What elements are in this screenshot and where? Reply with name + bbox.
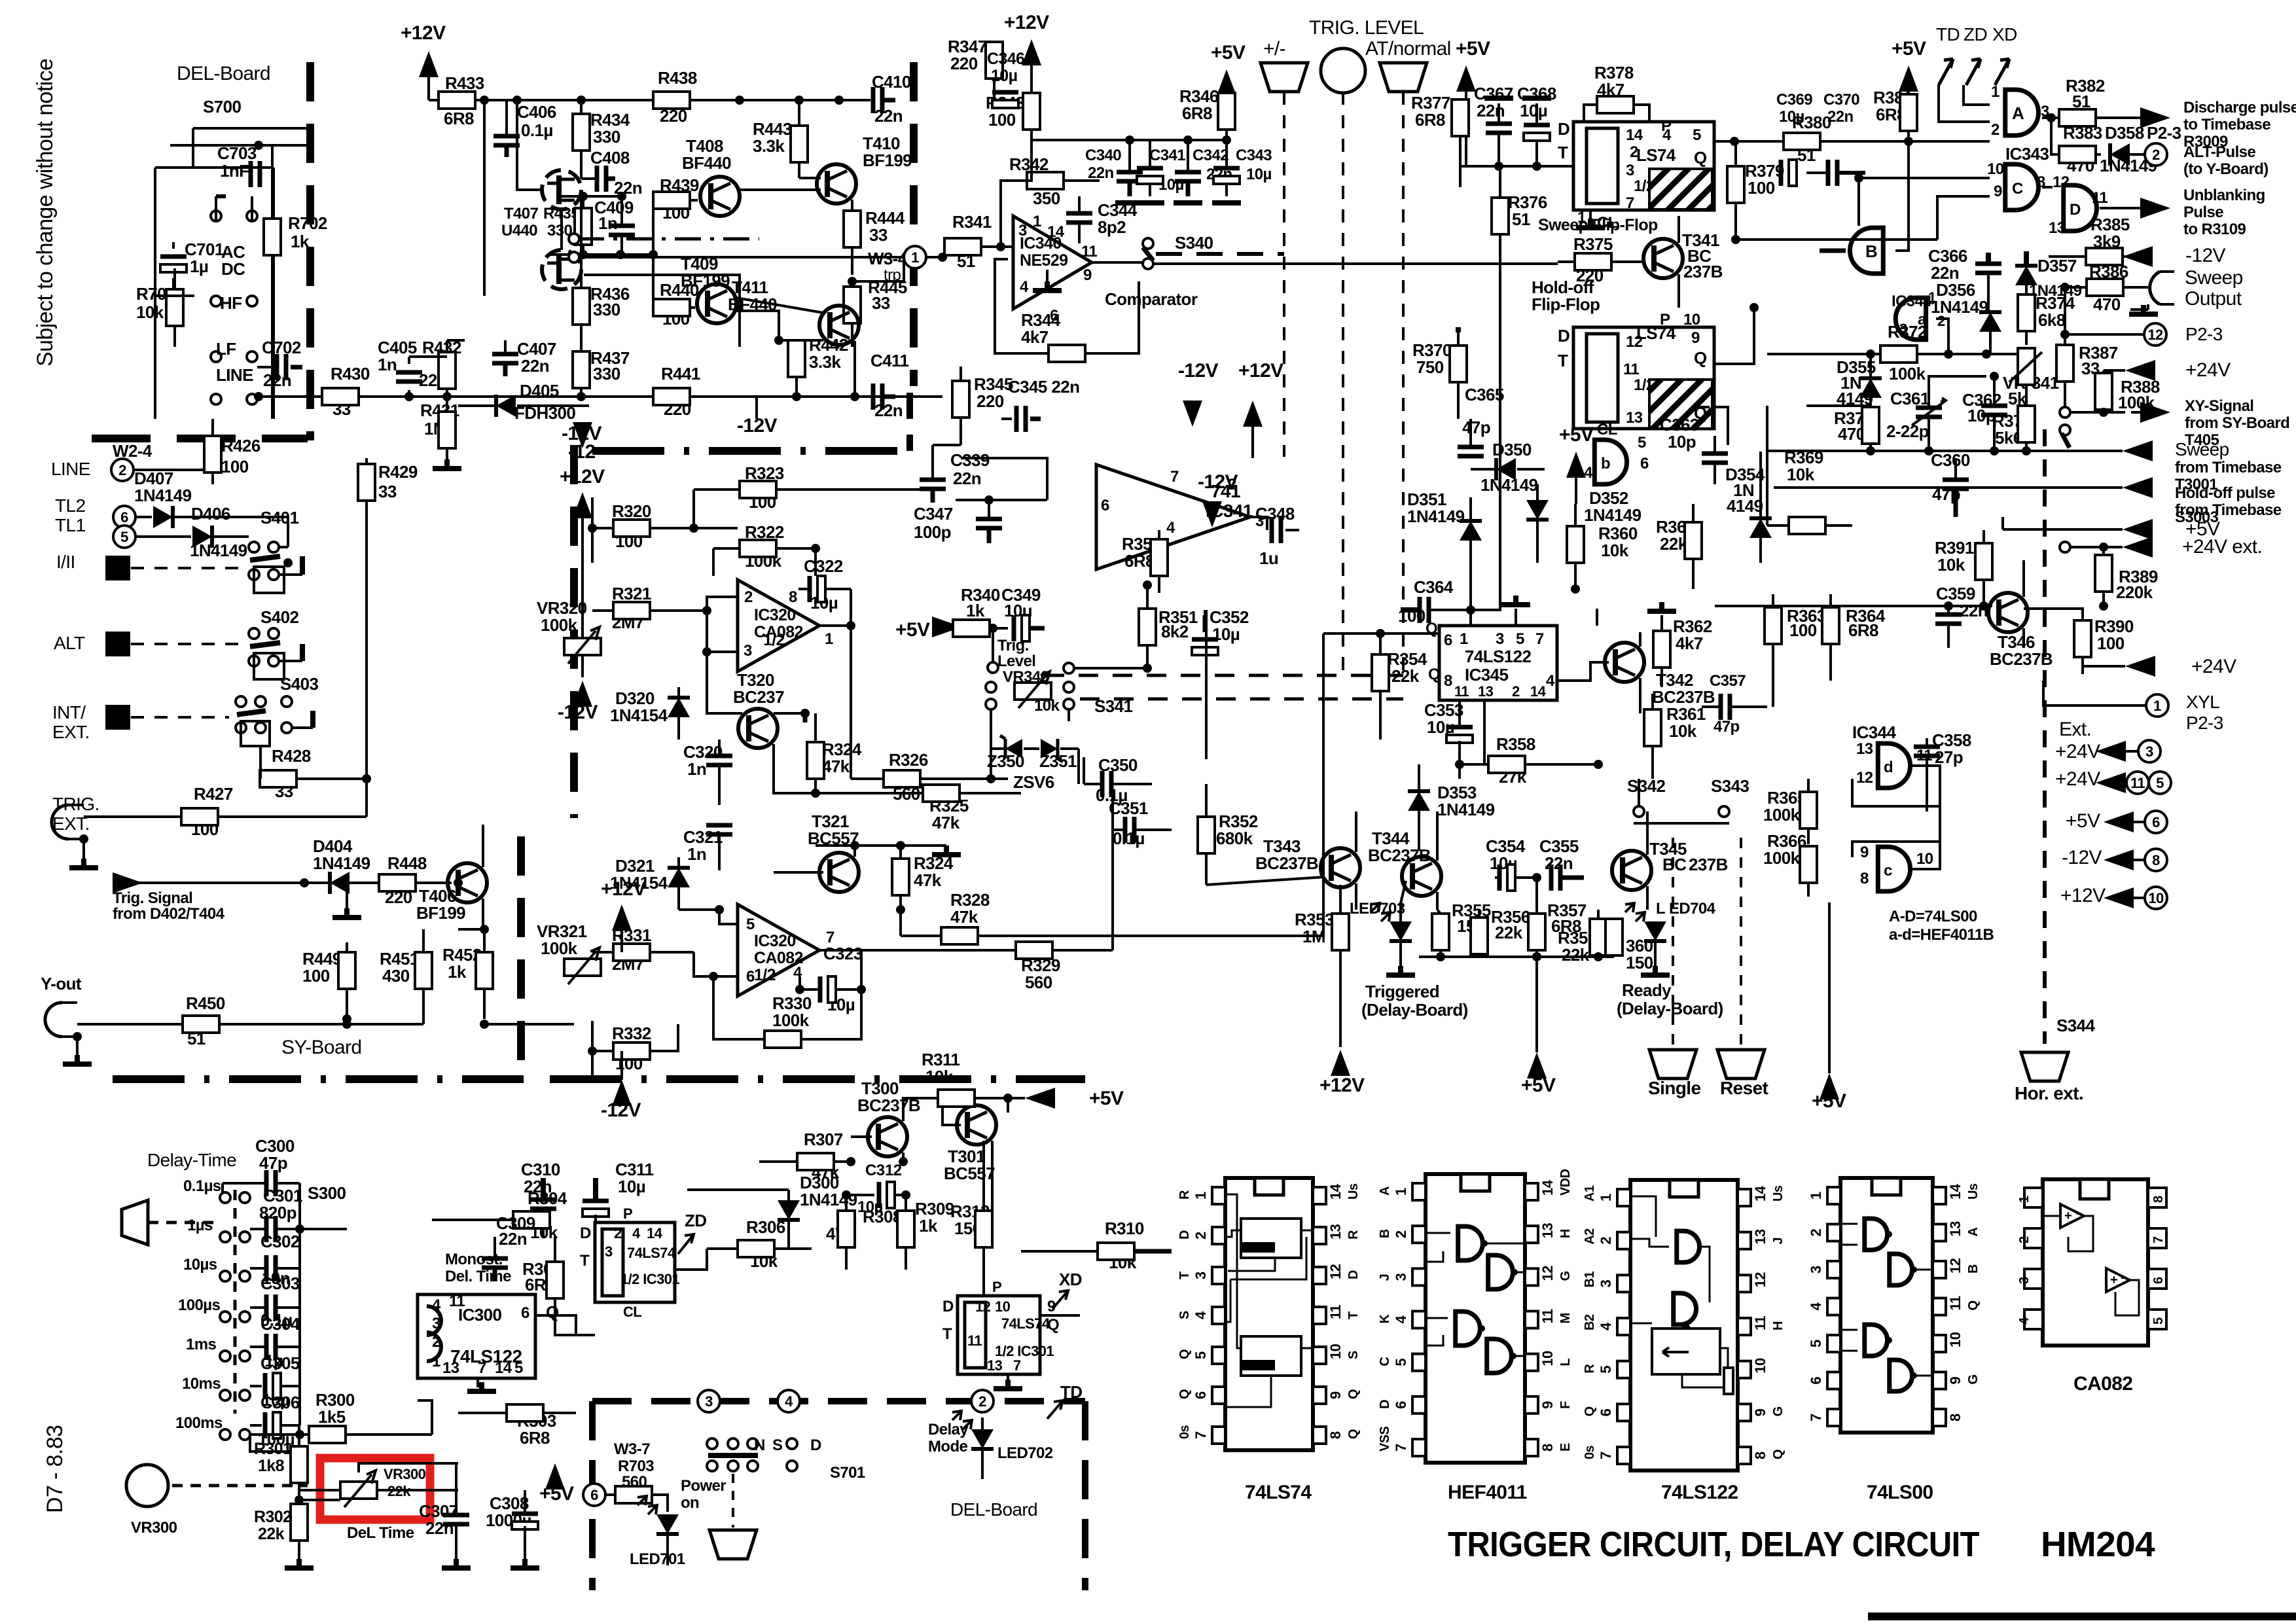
svg-text:Us: Us <box>1966 1183 1981 1200</box>
svg-text:-12V: -12V <box>2062 847 2102 868</box>
svg-text:8: 8 <box>1444 672 1452 690</box>
svg-text:BC557: BC557 <box>944 1164 995 1183</box>
svg-text:L: L <box>1558 1359 1573 1366</box>
svg-text:47p: 47p <box>1462 418 1490 437</box>
wire comparator output <box>1092 261 1143 264</box>
svg-text:C370: C370 <box>1823 91 1859 109</box>
svg-text:S: S <box>1177 1311 1192 1319</box>
svg-text:D406: D406 <box>191 504 230 524</box>
svg-text:Q: Q <box>1177 1349 1192 1359</box>
svg-text:10: 10 <box>1683 311 1700 329</box>
wire VR300 wiper <box>299 1499 340 1501</box>
svg-text:N: N <box>754 1436 765 1454</box>
svg-text:3: 3 <box>744 642 752 660</box>
pushbutton S701 <box>707 1438 717 1449</box>
svg-text:1: 1 <box>1808 1192 1824 1200</box>
svg-text:+5V: +5V <box>1892 38 1926 60</box>
svg-text:4: 4 <box>1598 1322 1614 1330</box>
svg-text:1k: 1k <box>919 1216 938 1236</box>
svg-text:AT/normal: AT/normal <box>1365 38 1451 60</box>
svg-text:5: 5 <box>1693 126 1701 144</box>
svg-text:+12V: +12V <box>1004 12 1049 33</box>
sweep output connector <box>2150 272 2160 304</box>
svg-text:6R8: 6R8 <box>1182 103 1212 123</box>
svg-text:+5V: +5V <box>1559 424 1594 446</box>
svg-text:74LS74: 74LS74 <box>1001 1315 1050 1332</box>
switch S700 frame <box>192 128 194 168</box>
dashed stem S701 <box>732 1474 734 1527</box>
svg-text:C351: C351 <box>1109 798 1148 818</box>
svg-text:+5V: +5V <box>539 1483 574 1505</box>
svg-text:5: 5 <box>1516 630 1524 648</box>
svg-text:R438: R438 <box>658 68 697 88</box>
svg-text:11: 11 <box>1081 243 1097 260</box>
svg-text:XY-Signal: XY-Signal <box>2185 397 2253 415</box>
svg-text:VR300: VR300 <box>131 1519 177 1537</box>
svg-text:1µs: 1µs <box>187 1217 213 1234</box>
svg-text:13: 13 <box>1752 1229 1768 1245</box>
svg-text:C345 22n: C345 22n <box>1008 377 1079 397</box>
svg-text:100: 100 <box>988 110 1016 130</box>
svg-text:2: 2 <box>1808 1229 1824 1237</box>
svg-text:Unblanking: Unblanking <box>2183 187 2265 204</box>
long rail y926 <box>1715 605 1898 607</box>
svg-text:1/2 IC301: 1/2 IC301 <box>995 1343 1054 1359</box>
thick dashed DEL border vertical right <box>1082 1401 1088 1590</box>
ground IC301b <box>1007 1374 1009 1385</box>
board border middle vertical <box>910 62 918 386</box>
svg-text:Delay-Time: Delay-Time <box>147 1150 236 1170</box>
svg-text:XYL: XYL <box>2186 692 2219 712</box>
svg-text:R448: R448 <box>387 853 427 873</box>
svg-text:100: 100 <box>2097 633 2125 653</box>
dual-gate fet T407 lower <box>542 250 581 289</box>
dashed control line <box>131 567 247 569</box>
svg-text:3: 3 <box>1598 1279 1614 1287</box>
svg-text:8: 8 <box>1752 1452 1768 1459</box>
svg-text:5: 5 <box>120 529 128 545</box>
svg-text:C306: C306 <box>260 1393 300 1412</box>
svg-text:from SY-Board: from SY-Board <box>2185 414 2289 432</box>
+5V arrow S343 area <box>1820 1073 1839 1099</box>
svg-text:13: 13 <box>1626 409 1643 427</box>
svg-text:Q: Q <box>1966 1301 1981 1311</box>
hor ext trapezoid <box>2021 1052 2068 1081</box>
74LS122 internal logic <box>1677 1231 1700 1262</box>
svg-text:W3-7: W3-7 <box>614 1440 650 1458</box>
svg-text:D358: D358 <box>2105 123 2144 143</box>
svg-text:3: 3 <box>1018 222 1027 240</box>
ic301 74LS74 second half <box>958 1296 1040 1374</box>
svg-text:100ms: 100ms <box>175 1414 223 1432</box>
dashed link TRIG LEVEL control <box>1342 92 1344 675</box>
svg-text:P2-3: P2-3 <box>2185 324 2223 344</box>
wire Q to XD <box>1040 1314 1080 1317</box>
svg-text:D: D <box>942 1298 954 1315</box>
svg-text:10: 10 <box>2148 890 2164 906</box>
svg-text:100: 100 <box>1748 178 1775 198</box>
svg-text:C411: C411 <box>870 351 908 370</box>
svg-text:S340: S340 <box>1175 233 1213 253</box>
svg-text:14: 14 <box>1047 223 1065 241</box>
svg-text:R: R <box>1346 1230 1361 1240</box>
transistor T300 BC237B <box>868 1117 907 1156</box>
svg-text:LS74: LS74 <box>1636 323 1676 343</box>
ground IC300 <box>476 1378 479 1387</box>
svg-text:10ms: 10ms <box>182 1375 221 1393</box>
svg-text:DC: DC <box>221 259 245 279</box>
svg-text:D: D <box>1378 1400 1392 1409</box>
svg-text:1nF: 1nF <box>220 161 249 181</box>
transistor T343 BC237B <box>1321 848 1360 887</box>
svg-text:10: 10 <box>1539 1351 1556 1366</box>
long vertical +5V trig <box>1471 445 1500 610</box>
svg-text:10k: 10k <box>1787 465 1815 484</box>
svg-text:12: 12 <box>1947 1258 1964 1274</box>
svg-text:12: 12 <box>885 1162 902 1179</box>
svg-text:10µ: 10µ <box>991 67 1017 85</box>
pot VR340 10k <box>1014 683 1051 700</box>
svg-text:C357: C357 <box>1710 672 1746 690</box>
svg-text:10: 10 <box>1916 850 1933 868</box>
svg-text:10µ: 10µ <box>618 1177 645 1196</box>
svg-text:9: 9 <box>1947 1377 1964 1385</box>
svg-text:S: S <box>1346 1351 1361 1359</box>
dashed S341 row2 <box>1080 698 1403 701</box>
transistor T345 BC237B <box>1612 851 1651 890</box>
svg-text:22n: 22n <box>874 401 903 420</box>
svg-text:S344: S344 <box>2056 1016 2095 1035</box>
svg-text:74LS74: 74LS74 <box>1245 1482 1312 1503</box>
dashed S340 to +/- line <box>1156 252 1284 256</box>
svg-text:C340: C340 <box>1085 147 1121 164</box>
svg-text:9: 9 <box>1752 1408 1768 1416</box>
wire from T410 emitter down <box>853 341 856 397</box>
svg-text:SY-Board: SY-Board <box>281 1037 362 1058</box>
junction dots <box>1731 235 1740 244</box>
svg-text:+: + <box>2110 1273 2117 1287</box>
svg-text:2: 2 <box>2152 147 2160 163</box>
wire 741 inputs <box>961 458 1047 500</box>
connector 3 on border <box>698 1390 720 1412</box>
svg-text:-12V: -12V <box>1178 360 1219 382</box>
svg-text:0.1µ: 0.1µ <box>521 120 553 140</box>
svg-text:from Timebase: from Timebase <box>2175 459 2282 476</box>
svg-text:ZD: ZD <box>1964 24 1987 45</box>
svg-text:(Delay-Board): (Delay-Board) <box>1361 1000 1468 1020</box>
svg-text:S403: S403 <box>280 674 318 694</box>
power -12V arrow bottom mid <box>612 1080 632 1106</box>
svg-text:L: L <box>1656 900 1665 918</box>
svg-text:S401: S401 <box>260 508 298 527</box>
horizontal R328 to right <box>1100 935 1323 937</box>
svg-text:3: 3 <box>2145 743 2153 760</box>
svg-text:Hold-off pulse: Hold-off pulse <box>2175 484 2275 502</box>
svg-text:1/2: 1/2 <box>754 966 776 984</box>
svg-text:+/-: +/- <box>1263 38 1285 60</box>
svg-text:Comparator: Comparator <box>1105 289 1198 309</box>
svg-text:100k: 100k <box>1763 805 1801 825</box>
wire S340 dash-dot line <box>578 238 759 241</box>
svg-text:Ext.: Ext. <box>2059 719 2091 740</box>
svg-text:T: T <box>1558 351 1568 370</box>
+5V arrow right of R311 <box>1025 1088 1055 1109</box>
svg-text:22n: 22n <box>425 1518 454 1538</box>
svg-text:C410: C410 <box>872 72 911 92</box>
svg-text:DEL-Board: DEL-Board <box>177 63 270 84</box>
svg-text:+12V: +12V <box>1319 1075 1365 1096</box>
svg-text:E: E <box>1558 1443 1573 1452</box>
connector trig ext jack <box>52 805 69 839</box>
svg-text:1n: 1n <box>687 759 706 779</box>
svg-text:2: 2 <box>1512 683 1520 700</box>
svg-text:G: G <box>1558 1271 1573 1281</box>
svg-text:100k: 100k <box>541 938 578 958</box>
svg-text:2-22p: 2-22p <box>1886 421 1929 441</box>
thick dash-dot board border SY <box>113 1075 524 1083</box>
svg-text:F: F <box>1558 1401 1573 1409</box>
svg-text:R426: R426 <box>221 436 260 455</box>
svg-text:Flip-Flop: Flip-Flop <box>1532 294 1600 314</box>
svg-text:Sweep: Sweep <box>2185 267 2243 289</box>
svg-text:10: 10 <box>1947 1332 1964 1347</box>
svg-text:33: 33 <box>378 482 397 501</box>
svg-text:Q: Q <box>1583 1406 1597 1416</box>
svg-text:D: D <box>1558 326 1570 346</box>
svg-text:11: 11 <box>1539 1309 1556 1323</box>
svg-text:6R8: 6R8 <box>1848 620 1878 640</box>
svg-text:6: 6 <box>1393 1401 1409 1409</box>
svg-text:74LS74: 74LS74 <box>627 1245 676 1261</box>
dashed vertical single <box>1672 838 1674 1050</box>
svg-text:10: 10 <box>1752 1358 1768 1374</box>
svg-text:S342: S342 <box>1627 776 1665 796</box>
svg-text:1/2 IC301: 1/2 IC301 <box>620 1271 679 1287</box>
svg-text:C304: C304 <box>260 1314 300 1334</box>
label P2-3 12 <box>2144 323 2166 346</box>
svg-text:TD: TD <box>1936 24 1960 45</box>
svg-text:350: 350 <box>1033 188 1060 208</box>
svg-text:1k: 1k <box>966 601 985 620</box>
svg-text:100k: 100k <box>1763 848 1801 868</box>
svg-text:330: 330 <box>593 300 620 319</box>
trig signal input arrow <box>113 872 143 893</box>
svg-text:R308: R308 <box>863 1207 902 1226</box>
svg-text:R430: R430 <box>331 364 370 383</box>
svg-text:M: M <box>1558 1313 1573 1323</box>
svg-text:6: 6 <box>521 1304 529 1322</box>
transistor T301 BC557 <box>957 1105 996 1145</box>
power arrow -12V lower <box>573 681 592 707</box>
label +5V delay <box>545 1463 565 1489</box>
svg-text:11: 11 <box>1623 361 1639 378</box>
svg-text:BF440: BF440 <box>682 153 731 173</box>
svg-text:BC: BC <box>1662 855 1687 874</box>
wire +12V rail comparator <box>1031 139 1227 141</box>
dual-gate fet T407 U440 upper <box>542 170 581 209</box>
node I/II black square <box>105 556 130 580</box>
wire R369 run <box>1766 406 1768 526</box>
svg-text:22n: 22n <box>953 469 981 488</box>
svg-text:0.1µs: 0.1µs <box>183 1177 221 1195</box>
svg-text:13: 13 <box>1327 1224 1344 1240</box>
svg-text:10k: 10k <box>1034 697 1060 715</box>
svg-text:13: 13 <box>1539 1223 1556 1239</box>
svg-text:G: G <box>1966 1375 1981 1385</box>
svg-text:2: 2 <box>1193 1232 1209 1240</box>
svg-text:BC237: BC237 <box>733 687 784 707</box>
svg-text:11: 11 <box>1947 1296 1964 1310</box>
nand gate A IC343 <box>2005 90 2039 135</box>
74LS74 internal flip-flop 2 <box>1241 1336 1301 1376</box>
svg-text:Discharge pulse: Discharge pulse <box>2183 99 2296 116</box>
svg-text:9: 9 <box>1691 329 1700 347</box>
svg-text:8k2: 8k2 <box>1161 622 1189 641</box>
thick dashed board border vertical DEL <box>306 62 314 440</box>
svg-text:1/2: 1/2 <box>763 631 785 649</box>
svg-text:Output: Output <box>2185 288 2242 310</box>
ic301 74LS74 first half <box>595 1222 675 1302</box>
svg-text:R703: R703 <box>618 1457 654 1475</box>
svg-text:22k: 22k <box>258 1525 285 1543</box>
svg-text:R433: R433 <box>445 73 484 93</box>
svg-text:R326: R326 <box>889 750 928 770</box>
svg-text:22n: 22n <box>1477 101 1505 120</box>
svg-text:-12V: -12V <box>562 423 602 444</box>
board border horizontal mid <box>592 447 910 455</box>
svg-text:1: 1 <box>1991 83 2000 101</box>
svg-text:B: B <box>1966 1264 1981 1274</box>
svg-text:7: 7 <box>1598 1452 1614 1459</box>
svg-text:10: 10 <box>1327 1344 1344 1359</box>
svg-text:10: 10 <box>995 1298 1011 1315</box>
svg-text:b: b <box>1601 455 1610 473</box>
board border elbow <box>906 393 913 451</box>
nand gate a IC344 <box>1895 298 1926 340</box>
svg-text:C339: C339 <box>950 450 990 470</box>
svg-text:D: D <box>580 1224 591 1242</box>
svg-text:2: 2 <box>1991 121 2000 139</box>
svg-text:2: 2 <box>1393 1230 1409 1238</box>
svg-text:C343: C343 <box>1236 147 1272 164</box>
svg-text:1n: 1n <box>598 213 617 233</box>
svg-text:Q: Q <box>1346 1389 1361 1399</box>
svg-text:6: 6 <box>746 968 755 986</box>
svg-text:D357: D357 <box>2037 256 2077 276</box>
svg-text:Sweep: Sweep <box>2175 439 2229 459</box>
wire bottom rail T-row <box>1419 955 1614 958</box>
svg-text:100k: 100k <box>1889 364 1926 383</box>
svg-text:D: D <box>1177 1230 1192 1240</box>
vertical long x2022 <box>1113 633 1323 936</box>
svg-text:5: 5 <box>746 916 755 933</box>
IC package 74LS00 body <box>1840 1178 1933 1433</box>
svg-text:4: 4 <box>1393 1315 1409 1324</box>
svg-text:Level: Level <box>997 652 1035 670</box>
led LED702 <box>971 1429 994 1449</box>
cross-coupled wires <box>1852 766 1940 857</box>
svg-text:P2-3: P2-3 <box>2186 713 2223 733</box>
nand gate c IC344 <box>1878 847 1910 891</box>
svg-text:R332: R332 <box>612 1024 651 1043</box>
vertical border piece upper <box>570 445 578 818</box>
unblanking arrow <box>2127 207 2144 209</box>
svg-text:T: T <box>1346 1311 1361 1319</box>
svg-text:6: 6 <box>1808 1377 1824 1385</box>
svg-text:4: 4 <box>1020 278 1029 296</box>
svg-text:5: 5 <box>1193 1351 1209 1359</box>
svg-text:DeL Time: DeL Time <box>347 1524 414 1542</box>
svg-text:10µs: 10µs <box>183 1256 217 1274</box>
opamp IC340 NE529 comparator <box>1013 216 1092 309</box>
svg-text:C302: C302 <box>260 1232 300 1251</box>
nand gate C IC343 <box>2005 164 2039 210</box>
svg-text:ED704: ED704 <box>1669 900 1716 918</box>
discharge pulse arrow <box>2127 116 2144 119</box>
svg-text:3.3k: 3.3k <box>753 136 785 156</box>
+5V input arrow <box>2003 528 2123 531</box>
svg-text:8: 8 <box>1539 1444 1556 1452</box>
svg-text:12: 12 <box>1856 769 1873 787</box>
svg-text:6R8: 6R8 <box>1415 110 1445 130</box>
svg-text:47k: 47k <box>914 870 942 890</box>
svg-text:A: A <box>1966 1228 1981 1237</box>
svg-text:13: 13 <box>1856 740 1873 758</box>
svg-text:3: 3 <box>1626 162 1634 179</box>
cap column right rail <box>298 1183 301 1425</box>
svg-text:1: 1 <box>2017 1196 2032 1203</box>
svg-text:+12V: +12V <box>2060 885 2106 906</box>
opamp IC320 CA082 lower half <box>738 904 819 996</box>
svg-text:6k8: 6k8 <box>2038 310 2066 330</box>
svg-text:C347: C347 <box>914 504 953 524</box>
svg-text:1: 1 <box>2153 698 2161 714</box>
wire <box>170 144 308 147</box>
svg-text:12: 12 <box>975 1298 991 1315</box>
svg-text:+5V: +5V <box>1089 1088 1124 1109</box>
svg-text:BF199: BF199 <box>416 903 465 923</box>
svg-text:C3: C3 <box>865 1162 885 1179</box>
svg-text:5: 5 <box>1808 1340 1824 1347</box>
svg-text:2: 2 <box>2017 1236 2032 1243</box>
nand gate b IC344 <box>1594 440 1626 484</box>
svg-text:+24V: +24V <box>2055 768 2100 790</box>
svg-text:1k5: 1k5 <box>318 1407 346 1427</box>
svg-text:VR300: VR300 <box>384 1466 426 1482</box>
power +12V arrow <box>419 51 439 77</box>
74LS74 internal wiring <box>1225 1194 1241 1348</box>
svg-text:33: 33 <box>872 293 890 313</box>
svg-text:TRIG. LEVEL: TRIG. LEVEL <box>1309 17 1424 39</box>
svg-text:3: 3 <box>1393 1273 1409 1281</box>
svg-text:W2-4: W2-4 <box>113 441 152 461</box>
svg-text:6R8: 6R8 <box>520 1428 550 1448</box>
connector 1 XYL <box>2146 694 2168 717</box>
svg-text:4: 4 <box>1546 672 1555 690</box>
svg-text:1: 1 <box>825 630 833 648</box>
svg-text:IC345: IC345 <box>1465 665 1509 685</box>
svg-text:9: 9 <box>1539 1401 1556 1409</box>
svg-text:0.1µ: 0.1µ <box>1113 829 1145 848</box>
svg-text:5: 5 <box>2156 775 2164 791</box>
svg-text:D: D <box>810 1436 821 1454</box>
svg-text:LED701: LED701 <box>630 1550 685 1568</box>
dashed line from +/- switch <box>1283 92 1285 457</box>
+5V arrow bottom <box>1527 1052 1547 1079</box>
transistor T342 BC237B <box>1605 643 1644 682</box>
svg-text:Delay: Delay <box>928 1421 969 1438</box>
svg-text:1N4149: 1N4149 <box>134 486 192 505</box>
